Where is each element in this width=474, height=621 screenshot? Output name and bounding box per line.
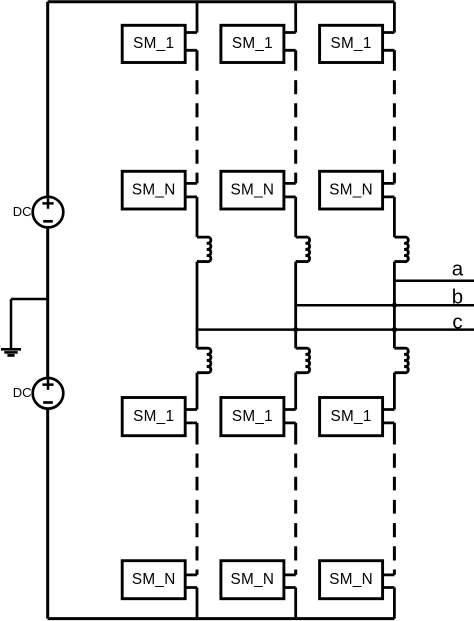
svg-text:SM_N: SM_N: [231, 181, 275, 198]
svg-text:SM_1: SM_1: [232, 35, 273, 52]
svg-text:DC: DC: [13, 204, 32, 219]
svg-text:a: a: [452, 258, 464, 281]
svg-text:SM_1: SM_1: [331, 35, 372, 52]
svg-text:b: b: [452, 286, 463, 309]
svg-text:DC: DC: [13, 385, 32, 400]
svg-text:SM_N: SM_N: [329, 181, 373, 198]
svg-text:c: c: [452, 310, 462, 333]
svg-text:SM_N: SM_N: [132, 181, 176, 198]
svg-text:SM_1: SM_1: [232, 408, 273, 425]
svg-text:SM_1: SM_1: [331, 408, 372, 425]
svg-text:SM_N: SM_N: [132, 571, 176, 588]
svg-text:SM_1: SM_1: [133, 35, 174, 52]
svg-text:SM_N: SM_N: [231, 571, 275, 588]
svg-text:SM_1: SM_1: [133, 408, 174, 425]
svg-text:SM_N: SM_N: [329, 571, 373, 588]
